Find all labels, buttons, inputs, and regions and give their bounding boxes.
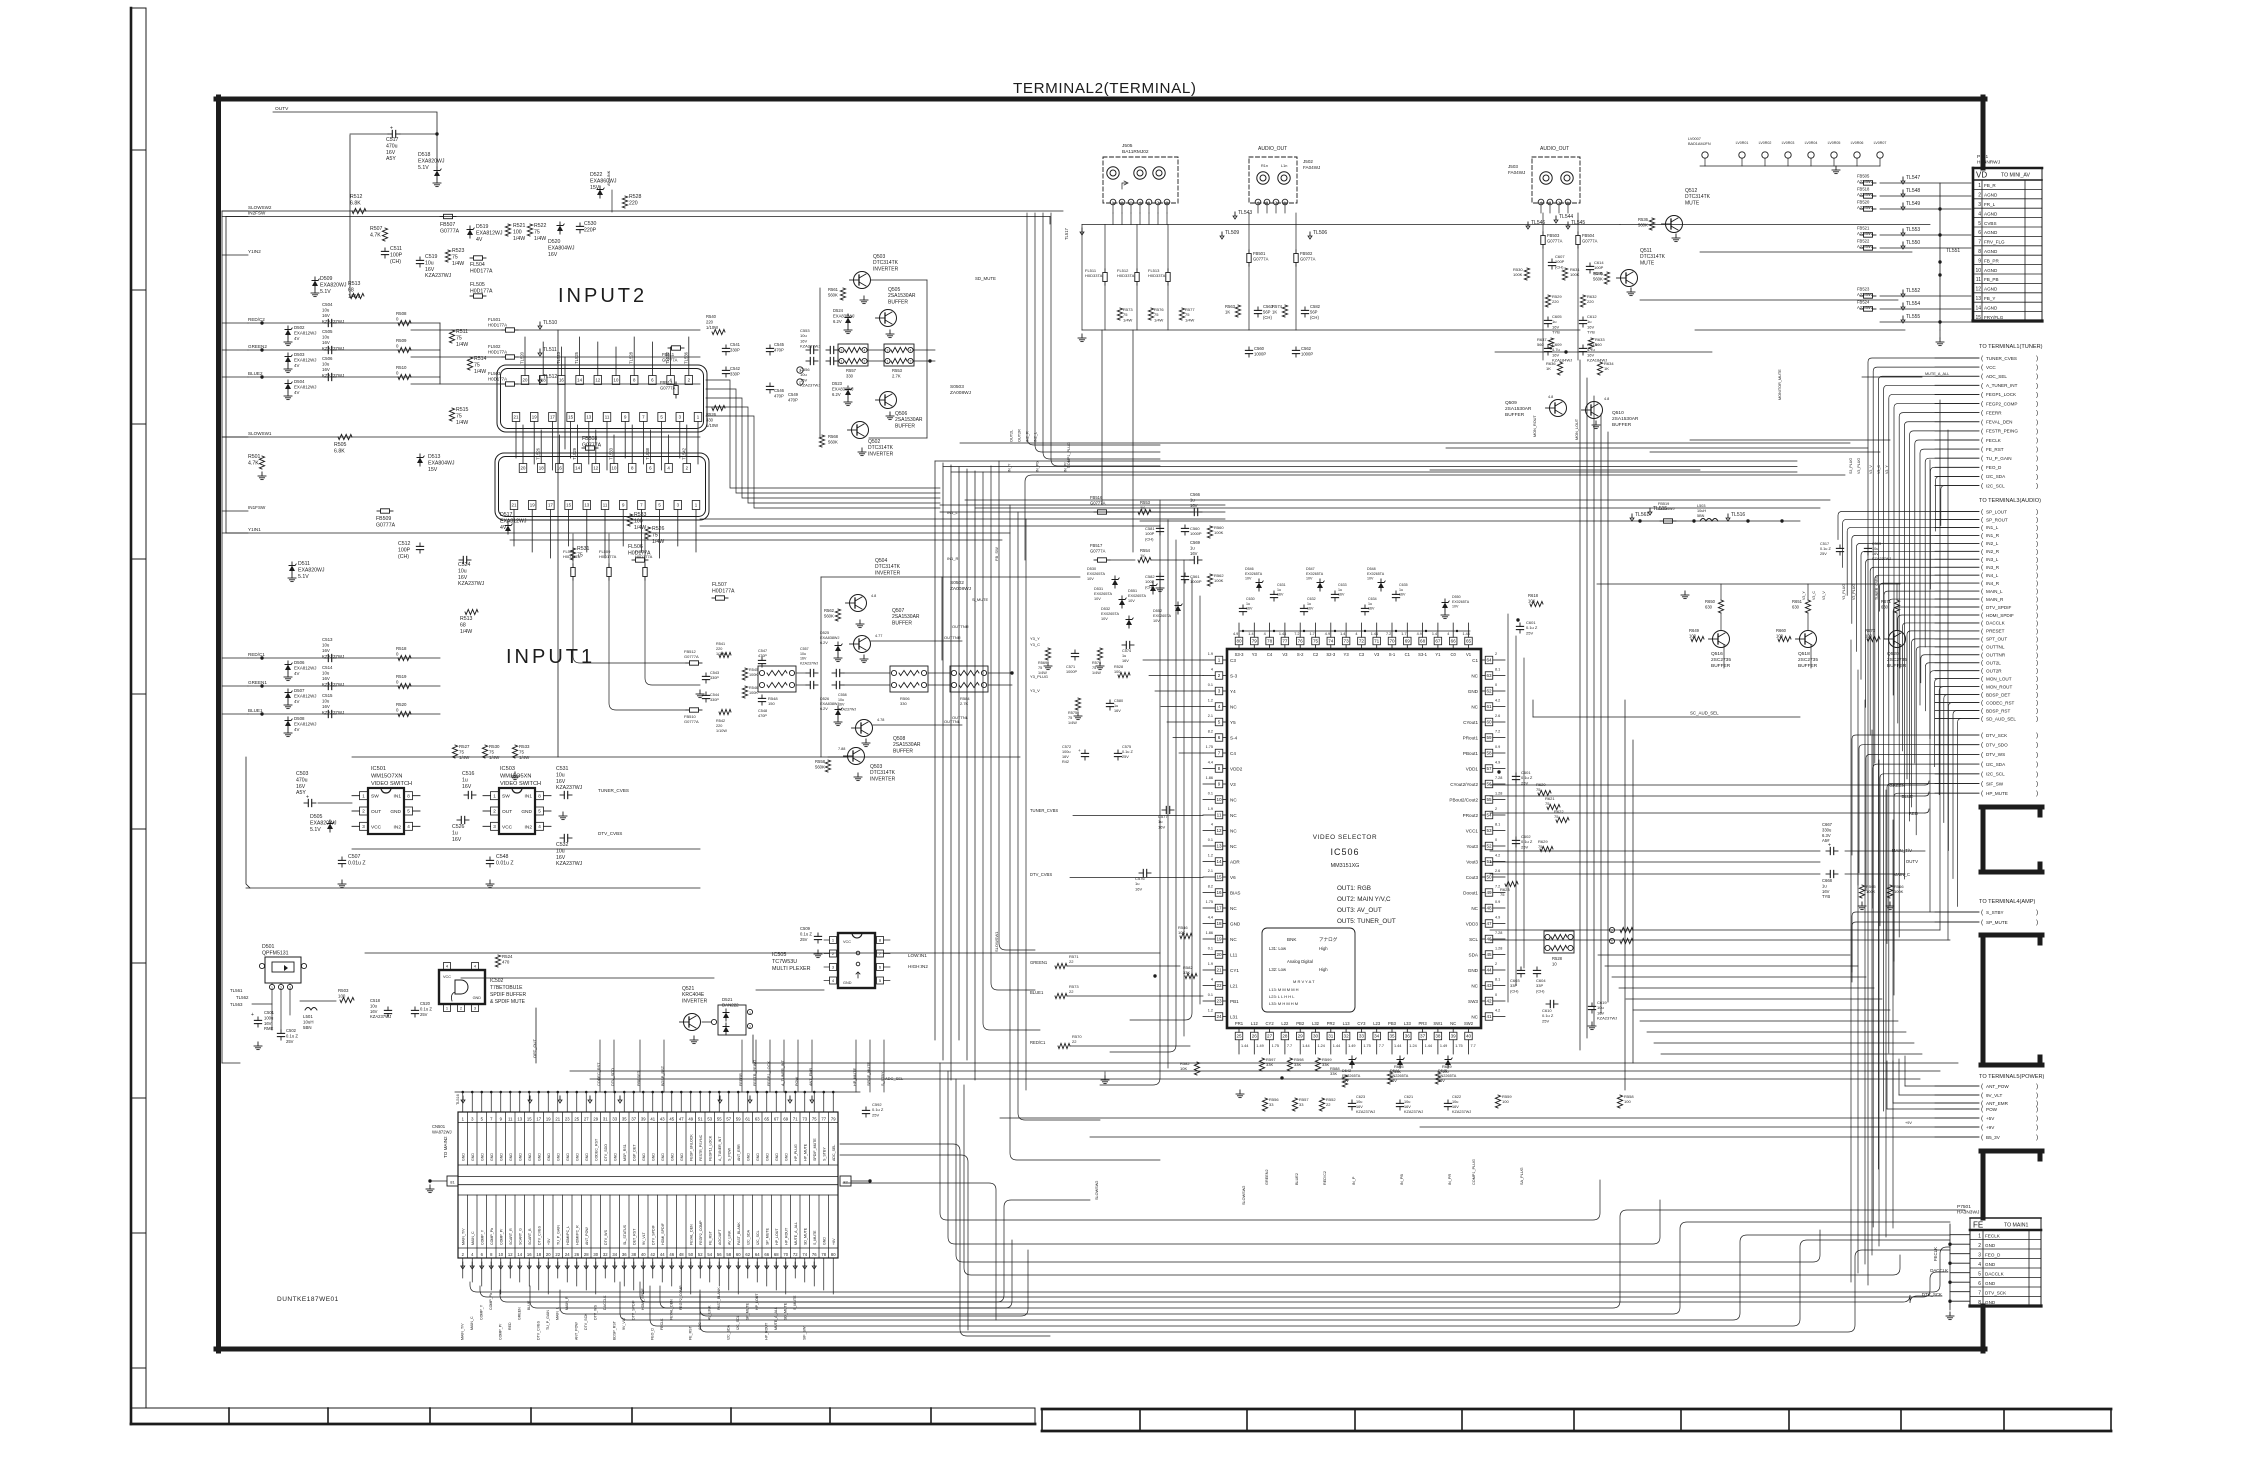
svg-text:4V: 4V xyxy=(294,699,299,704)
svg-text:0.1: 0.1 xyxy=(1208,683,1213,687)
filter FL507 xyxy=(716,596,725,600)
svg-text:): ) xyxy=(2036,668,2038,675)
svg-text:): ) xyxy=(2036,781,2038,788)
ferrite bead FB508 xyxy=(586,446,595,450)
svg-text:D521: D521 xyxy=(722,997,733,1002)
svg-text:C667: C667 xyxy=(1822,822,1833,827)
svg-text:C562: C562 xyxy=(1301,346,1312,351)
svg-text:OUTTNR: OUTTNR xyxy=(952,624,969,629)
svg-text:R520: R520 xyxy=(396,702,407,707)
svg-text:BIAS: BIAS xyxy=(1230,890,1240,895)
svg-text:): ) xyxy=(2036,548,2038,555)
svg-text:IN_P: IN_P xyxy=(1352,1176,1356,1185)
svg-text:FEO_D: FEO_D xyxy=(1986,465,2002,470)
wire bottom-center nested routes xyxy=(640,1063,1900,1336)
svg-text:H0D177A: H0D177A xyxy=(488,377,507,382)
resistor R513 xyxy=(350,293,364,298)
svg-text:10V: 10V xyxy=(1087,577,1094,581)
svg-text:9V_VLT: 9V_VLT xyxy=(1986,1093,2002,1098)
svg-text:C547: C547 xyxy=(758,649,767,653)
svg-text:16V: 16V xyxy=(322,648,330,653)
svg-text:D507: D507 xyxy=(294,688,305,693)
svg-text:I2C_SDA: I2C_SDA xyxy=(1986,474,2006,479)
svg-text:4V: 4V xyxy=(476,237,483,243)
svg-text:FEGP_UNLOCK: FEGP_UNLOCK xyxy=(689,1134,693,1161)
svg-text:SLOWSW2: SLOWSW2 xyxy=(1242,1186,1246,1205)
svg-text:SCART_B: SCART_B xyxy=(528,1228,532,1245)
svg-text:10: 10 xyxy=(498,1252,503,1257)
svg-text:BUFFER: BUFFER xyxy=(1887,663,1907,669)
svg-text:16V: 16V xyxy=(425,267,435,273)
svg-text:FAST_BLANK: FAST_BLANK xyxy=(717,1287,721,1310)
svg-text:SD_MUTE: SD_MUTE xyxy=(784,1302,788,1320)
svg-text:C3: C3 xyxy=(1230,658,1236,663)
svg-text:1K: 1K xyxy=(1225,309,1230,314)
svg-text:PRout2: PRout2 xyxy=(1463,813,1479,818)
svg-text:HDMI_SPDIF: HDMI_SPDIF xyxy=(1986,613,2014,618)
svg-text:7.28: 7.28 xyxy=(1495,931,1502,935)
svg-text:53: 53 xyxy=(707,1117,712,1122)
svg-text:High: High xyxy=(1319,967,1328,972)
svg-text:DTV_CVBS: DTV_CVBS xyxy=(598,831,622,836)
input1 clamp diodes D506-D508 with caps C513-C515 xyxy=(248,637,530,780)
svg-text:A234WJ: A234WJ xyxy=(1857,179,1873,184)
svg-text:27: 27 xyxy=(1267,1034,1273,1039)
svg-text:A5Y: A5Y xyxy=(386,156,396,162)
svg-text:34: 34 xyxy=(612,1252,617,1257)
filter FL506 xyxy=(636,558,645,562)
svg-text:RED/C1: RED/C1 xyxy=(1030,1040,1046,1045)
svg-text:C512: C512 xyxy=(398,541,411,547)
svg-text:H0D33TA: H0D33TA xyxy=(1085,273,1103,278)
svg-text:60: 60 xyxy=(736,1252,741,1257)
svg-text:R523: R523 xyxy=(452,248,465,254)
svg-text:H0D33TA: H0D33TA xyxy=(1148,273,1166,278)
svg-text:MAIN_L: MAIN_L xyxy=(1986,589,2003,594)
svg-text:Y1: Y1 xyxy=(1435,652,1441,657)
svg-text:75: 75 xyxy=(1068,716,1072,720)
svg-text:4: 4 xyxy=(1978,1262,1981,1268)
svg-text:C517: C517 xyxy=(1820,542,1829,546)
diodes D551 D552 xyxy=(1150,586,1156,592)
svg-text:NC: NC xyxy=(1230,937,1237,942)
svg-text:IN_PR: IN_PR xyxy=(1448,1174,1452,1185)
svg-text:GND: GND xyxy=(765,1153,769,1161)
svg-text:VCC1: VCC1 xyxy=(1466,828,1479,833)
svg-text:GND: GND xyxy=(756,1153,760,1161)
svg-text:GND: GND xyxy=(575,1153,579,1161)
svg-text:): ) xyxy=(2036,419,2038,426)
svg-text:3: 3 xyxy=(1166,201,1168,205)
svg-text:BA11RMJ02: BA11RMJ02 xyxy=(1122,149,1149,155)
svg-text:29: 29 xyxy=(593,1117,598,1122)
diode D550 top right xyxy=(1441,595,1470,619)
svg-text:AGND: AGND xyxy=(1984,268,1998,273)
svg-text:65: 65 xyxy=(1466,639,1472,644)
svg-text:G0777A: G0777A xyxy=(1300,256,1316,261)
svg-text:44: 44 xyxy=(1486,968,1492,973)
capacitor C511 xyxy=(384,248,386,251)
svg-text:KZA237WJ: KZA237WJ xyxy=(322,682,344,687)
svg-text:330: 330 xyxy=(846,373,854,378)
svg-text:3: 3 xyxy=(799,369,801,373)
svg-text:R545: R545 xyxy=(749,668,758,672)
svg-text:Q506: Q506 xyxy=(895,411,907,417)
svg-text:C503: C503 xyxy=(296,771,309,777)
svg-text:41: 41 xyxy=(1486,1014,1492,1019)
svg-text:D503: D503 xyxy=(294,352,305,357)
svg-text:220: 220 xyxy=(629,200,638,206)
svg-text:SW: SW xyxy=(502,794,510,800)
svg-text:1/4W: 1/4W xyxy=(459,755,470,760)
svg-text:): ) xyxy=(2036,708,2038,715)
svg-text:C633: C633 xyxy=(1338,583,1347,587)
svg-text:FL504: FL504 xyxy=(470,262,485,268)
buffer transistors Q516 Q518 Q520 xyxy=(1597,584,1907,716)
svg-text:1.49: 1.49 xyxy=(1256,1044,1263,1048)
svg-text:1.7: 1.7 xyxy=(1310,632,1315,636)
svg-text:FB521: FB521 xyxy=(1857,226,1870,231)
svg-text:SD_AUD_SEL: SD_AUD_SEL xyxy=(1986,716,2016,721)
svg-text:16V: 16V xyxy=(322,340,330,345)
svg-text:5: 5 xyxy=(538,809,541,814)
svg-text:GND: GND xyxy=(528,1153,532,1161)
svg-text:6.8K: 6.8K xyxy=(334,448,345,454)
svg-text:ANT_POW: ANT_POW xyxy=(575,1322,579,1340)
svg-text:GND: GND xyxy=(509,1153,513,1161)
ferrite beads FB501 FB502 with caps xyxy=(1220,210,1327,357)
svg-text:1K: 1K xyxy=(1272,309,1277,314)
svg-text:C513: C513 xyxy=(322,637,333,642)
svg-text:68: 68 xyxy=(1420,639,1426,644)
svg-text:1u: 1u xyxy=(1307,602,1311,606)
svg-text:25V: 25V xyxy=(1526,630,1533,635)
svg-text:50: 50 xyxy=(1486,875,1492,880)
svg-text:AGND: AGND xyxy=(1984,193,1998,198)
svg-text:3: 3 xyxy=(841,349,843,353)
svg-text:100u: 100u xyxy=(1062,750,1070,754)
svg-text:78: 78 xyxy=(1267,639,1273,644)
svg-text:630: 630 xyxy=(1792,604,1800,609)
svg-text:8.1: 8.1 xyxy=(1495,978,1500,982)
svg-text:DTC314TK: DTC314TK xyxy=(1640,254,1666,260)
svg-text:(CH): (CH) xyxy=(1145,536,1154,541)
svg-text:C575: C575 xyxy=(1122,745,1131,749)
svg-text:SP_LOUT: SP_LOUT xyxy=(1986,509,2007,514)
svg-text:OUT2L: OUT2L xyxy=(1010,430,1014,442)
svg-text:): ) xyxy=(2036,464,2038,471)
svg-text:KZA237WJ: KZA237WJ xyxy=(322,654,344,659)
svg-text:5BN: 5BN xyxy=(1697,514,1705,518)
svg-text:VIDEO SELECTOR: VIDEO SELECTOR xyxy=(1313,834,1377,841)
svg-text:21: 21 xyxy=(1216,968,1222,973)
jack row LV0007 etc xyxy=(1688,137,1886,174)
svg-text:DTC314TK: DTC314TK xyxy=(868,445,894,451)
svg-text:5.1V: 5.1V xyxy=(418,165,429,171)
op-amp IC501 video switch xyxy=(352,766,420,834)
svg-text:Y3_PLUG: Y3_PLUG xyxy=(1030,674,1048,679)
svg-text:PR2: PR2 xyxy=(1327,1021,1336,1026)
svg-text:470u: 470u xyxy=(386,143,398,149)
svg-text:MSP_RS1: MSP_RS1 xyxy=(623,1144,627,1161)
svg-text:): ) xyxy=(2036,700,2038,707)
svg-text:GREEN1: GREEN1 xyxy=(1030,960,1048,965)
svg-text:4V: 4V xyxy=(294,390,299,395)
svg-text:GND: GND xyxy=(784,1153,788,1161)
svg-text:8: 8 xyxy=(538,793,541,798)
svg-text:RED/C2: RED/C2 xyxy=(248,317,265,322)
svg-text:1u: 1u xyxy=(1114,704,1118,708)
svg-text:A234WJ: A234WJ xyxy=(1857,292,1873,297)
resistor R513b xyxy=(465,609,478,614)
svg-text:FB505: FB505 xyxy=(1857,174,1870,179)
svg-text:16V: 16V xyxy=(556,855,566,861)
svg-text:16V: 16V xyxy=(264,1021,272,1026)
svg-text:1.44: 1.44 xyxy=(1425,1044,1432,1048)
svg-text:1/4W: 1/4W xyxy=(348,294,360,300)
svg-text:SCL: SCL xyxy=(1469,937,1478,942)
svg-text:SD_MUTE: SD_MUTE xyxy=(975,276,996,281)
svg-text:470P: 470P xyxy=(758,714,767,718)
svg-text:FEVAL_DEN: FEVAL_DEN xyxy=(1986,420,2012,425)
svg-text:1.75: 1.75 xyxy=(1272,1044,1279,1048)
svg-text:SLOWSW1: SLOWSW1 xyxy=(994,931,999,952)
svg-text:FECLK: FECLK xyxy=(1985,1233,2001,1238)
svg-text:52: 52 xyxy=(698,1252,703,1257)
svg-text:FB520: FB520 xyxy=(1857,200,1870,205)
svg-text:TL520: TL520 xyxy=(520,351,525,364)
svg-text:C630: C630 xyxy=(1246,597,1255,601)
svg-text:FEO_D: FEO_D xyxy=(651,1328,655,1340)
svg-text:16V: 16V xyxy=(1135,886,1142,891)
svg-text:10u: 10u xyxy=(425,260,434,266)
svg-text:C574: C574 xyxy=(1122,649,1131,653)
svg-text:GND: GND xyxy=(521,809,532,815)
svg-text:FESTR_PSYNC: FESTR_PSYNC xyxy=(699,1134,703,1161)
svg-text:33K: 33K xyxy=(1394,1069,1401,1074)
svg-text:BUFFER: BUFFER xyxy=(1711,663,1731,669)
svg-text:R618: R618 xyxy=(1528,593,1539,598)
svg-text:56P: 56P xyxy=(1263,309,1271,314)
svg-text:): ) xyxy=(2036,684,2038,691)
svg-text:OUT2R: OUT2R xyxy=(1018,429,1022,442)
svg-text:R660: R660 xyxy=(1776,628,1787,633)
transistor Q521 inverter xyxy=(680,986,753,1044)
ferrite bead FB509 xyxy=(381,509,390,513)
svg-text:A_TUNER_INT: A_TUNER_INT xyxy=(718,1136,722,1161)
svg-text:4V: 4V xyxy=(500,525,507,531)
capacitor C512 xyxy=(419,543,421,546)
svg-text:9V_VLT: 9V_VLT xyxy=(622,1316,626,1330)
node OUTV and C517 loop xyxy=(273,106,612,296)
svg-text:4.9: 4.9 xyxy=(1417,632,1422,636)
svg-text:31: 31 xyxy=(603,1117,608,1122)
svg-text:TO TERMINAL1(TUNER): TO TERMINAL1(TUNER) xyxy=(1979,344,2043,350)
svg-text:BUFFER: BUFFER xyxy=(1612,422,1632,428)
svg-text:100P: 100P xyxy=(390,252,403,258)
svg-text:V3_PLUG: V3_PLUG xyxy=(1852,584,1856,600)
svg-text:C502: C502 xyxy=(286,1028,297,1033)
svg-text:COMP_Y: COMP_Y xyxy=(480,1304,484,1320)
svg-text:Analog Digital: Analog Digital xyxy=(1287,959,1313,964)
svg-text:OUT: OUT xyxy=(371,809,381,815)
svg-text:4.9: 4.9 xyxy=(1495,916,1500,920)
svg-text:2SA1530AR: 2SA1530AR xyxy=(1505,406,1532,412)
lower input section FB508, D513, R505 xyxy=(222,434,735,634)
svg-text:76: 76 xyxy=(1298,639,1304,644)
svg-text:NC: NC xyxy=(1230,704,1237,709)
svg-text:100K: 100K xyxy=(749,673,758,677)
svg-text:0.1u Z: 0.1u Z xyxy=(800,931,812,936)
wire top-right horizontals xyxy=(1620,225,1930,453)
svg-text:18: 18 xyxy=(1216,921,1222,926)
wires into FE table xyxy=(1922,1224,1970,1320)
svg-text:1/4W: 1/4W xyxy=(1092,671,1101,675)
wire IC501 area bus xyxy=(352,756,1020,758)
cluster left of IC506 xyxy=(947,429,1203,1084)
svg-text:A234WJ: A234WJ xyxy=(1857,205,1873,210)
svg-text:TU_P_GAIN: TU_P_GAIN xyxy=(546,1310,550,1330)
svg-text:100K: 100K xyxy=(1214,578,1224,583)
svg-text:100K: 100K xyxy=(1513,272,1523,277)
svg-text:TL536: TL536 xyxy=(683,351,688,364)
svg-text:): ) xyxy=(2036,446,2038,453)
resistor R533b xyxy=(627,514,632,526)
svg-text:2.7K: 2.7K xyxy=(892,373,901,378)
svg-text:TL525: TL525 xyxy=(574,351,579,364)
svg-text:D513: D513 xyxy=(428,454,441,460)
svg-text:): ) xyxy=(2036,556,2038,563)
svg-text:V3_Y: V3_Y xyxy=(1802,591,1806,600)
svg-text:R546: R546 xyxy=(749,686,758,690)
svg-text:I2C_SDA: I2C_SDA xyxy=(746,1229,750,1245)
svg-text:22: 22 xyxy=(1326,1102,1331,1107)
svg-text:1u: 1u xyxy=(1122,654,1126,658)
svg-text:C557: C557 xyxy=(800,647,809,651)
svg-text:C518: C518 xyxy=(370,998,381,1003)
svg-text:FEGP11_LOCK: FEGP11_LOCK xyxy=(708,1135,712,1161)
svg-text:C582: C582 xyxy=(1310,304,1321,309)
svg-text:3: 3 xyxy=(1978,1252,1981,1258)
svg-text:AUDIO_OUT: AUDIO_OUT xyxy=(1540,146,1569,152)
svg-text:68: 68 xyxy=(774,1252,779,1257)
svg-text:R509: R509 xyxy=(396,338,407,343)
svg-text:GND: GND xyxy=(547,1153,551,1161)
svg-text:38: 38 xyxy=(1435,1034,1441,1039)
svg-text:1/4W: 1/4W xyxy=(1154,317,1164,322)
svg-text:2.1: 2.1 xyxy=(1208,869,1213,873)
svg-text:HP_PLUG: HP_PLUG xyxy=(794,1144,798,1161)
svg-text:6: 6 xyxy=(1978,1281,1981,1287)
svg-text:10V: 10V xyxy=(1452,605,1459,609)
svg-text:560K: 560K xyxy=(828,439,838,444)
svg-text:V1: V1 xyxy=(1466,652,1472,657)
capacitor C517 xyxy=(388,133,392,135)
svg-text:16V: 16V xyxy=(1822,889,1830,894)
svg-text:): ) xyxy=(2036,532,2038,539)
svg-text:100: 100 xyxy=(513,229,522,235)
svg-text:FA04WJ: FA04WJ xyxy=(1303,165,1320,170)
svg-text:17: 17 xyxy=(1216,906,1222,911)
svg-text:TL526: TL526 xyxy=(536,447,541,460)
svg-text:1.49: 1.49 xyxy=(1440,1044,1447,1048)
svg-text:OUT: OUT xyxy=(502,809,512,815)
svg-text:1.44: 1.44 xyxy=(1241,1044,1248,1048)
resistor R523 xyxy=(445,250,450,262)
svg-text:OUTTNR: OUTTNR xyxy=(944,635,961,640)
svg-text:2: 2 xyxy=(1495,652,1497,656)
svg-text:FL502: FL502 xyxy=(488,344,501,349)
svg-text:): ) xyxy=(2036,473,2038,480)
svg-text:Y3_C: Y3_C xyxy=(1030,642,1040,647)
svg-text:C516: C516 xyxy=(462,771,475,777)
svg-text:D509: D509 xyxy=(320,276,333,282)
ferrite beads FB505-FB524 feeding VD connector xyxy=(1857,174,1971,346)
svg-text:7.2: 7.2 xyxy=(1294,632,1299,636)
svg-text:GREEN: GREEN xyxy=(518,1307,522,1320)
svg-text:G0777A: G0777A xyxy=(1582,238,1598,243)
logic IC502 SPDIF buffer xyxy=(439,954,527,1012)
svg-text:TL517: TL517 xyxy=(1064,227,1069,240)
svg-text:SIF_SW: SIF_SW xyxy=(1986,781,2004,786)
resistor pack R528 xyxy=(1544,931,1574,953)
svg-text:RED/C1: RED/C1 xyxy=(248,652,265,657)
svg-text:52: 52 xyxy=(1486,844,1492,849)
svg-text:): ) xyxy=(2036,540,2038,547)
svg-text:KRC404E: KRC404E xyxy=(682,992,705,998)
svg-text:25V: 25V xyxy=(1542,1018,1549,1023)
svg-text:C4: C4 xyxy=(1267,652,1273,657)
svg-text:FEVAL_DEN: FEVAL_DEN xyxy=(689,1224,693,1245)
svg-text:): ) xyxy=(2036,790,2038,797)
svg-text:I2C_SCL: I2C_SCL xyxy=(736,1315,740,1330)
svg-text:): ) xyxy=(2036,1124,2038,1131)
svg-text:C519: C519 xyxy=(425,254,438,260)
svg-text:2: 2 xyxy=(362,809,365,814)
svg-text:75: 75 xyxy=(534,229,540,235)
svg-text:14: 14 xyxy=(577,378,582,383)
svg-text:16V: 16V xyxy=(556,779,566,785)
svg-text:2: 2 xyxy=(1121,201,1123,205)
wire vertical bundle x1580-1600 xyxy=(1580,360,1633,1090)
svg-text:1K: 1K xyxy=(1604,366,1609,371)
svg-text:+: + xyxy=(306,795,309,801)
svg-text:L23: L L H H L: L23: L L H H L xyxy=(1269,994,1295,999)
svg-text:100: 100 xyxy=(338,994,346,999)
svg-text:IC501: IC501 xyxy=(371,766,386,772)
transistor Q508 buffer lower xyxy=(820,697,962,754)
svg-text:Y1IN2: Y1IN2 xyxy=(248,249,261,254)
svg-text:4V: 4V xyxy=(294,671,299,676)
svg-text:P7501: P7501 xyxy=(1957,1204,1971,1210)
svg-text:BUFFER: BUFFER xyxy=(1505,412,1525,418)
svg-text:C558: C558 xyxy=(838,693,847,697)
svg-text:TO MAIN1: TO MAIN1 xyxy=(2004,1223,2029,1229)
svg-text:2: 2 xyxy=(1275,201,1277,205)
svg-text:16V: 16V xyxy=(1122,659,1129,663)
svg-text:6: 6 xyxy=(1978,230,1981,236)
svg-text:Doout1: Doout1 xyxy=(1463,890,1478,895)
svg-text:FB_PB: FB_PB xyxy=(1984,277,1999,282)
svg-text:16V: 16V xyxy=(1158,824,1165,829)
svg-text:C515: C515 xyxy=(322,693,333,698)
zener D526 xyxy=(835,710,841,716)
svg-text:16V: 16V xyxy=(1399,593,1406,597)
svg-text:1.86: 1.86 xyxy=(1206,931,1213,935)
svg-text:OUT1: RGB: OUT1: RGB xyxy=(1337,885,1371,892)
svg-text:AUDIO_OUT: AUDIO_OUT xyxy=(1258,146,1287,152)
svg-text:33: 33 xyxy=(1359,1034,1365,1039)
